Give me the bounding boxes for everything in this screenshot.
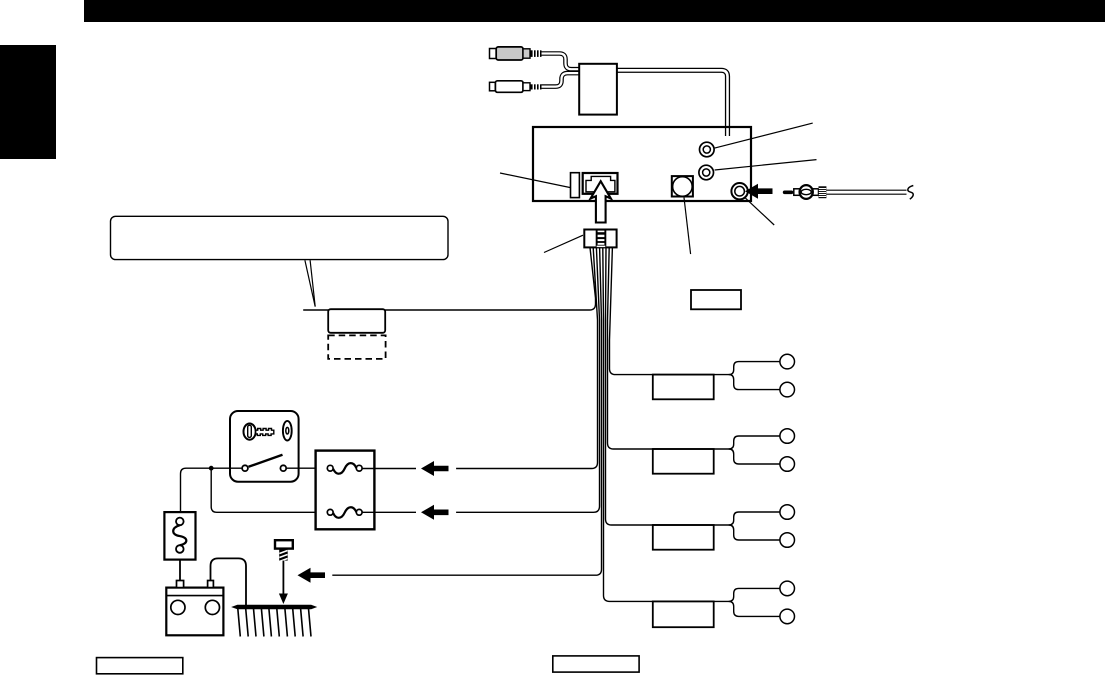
callout line to RCA jack 1: [715, 123, 813, 148]
black arrow fuse wire 2: [421, 505, 449, 520]
wire bundle: 8 wires from harness connector: [303, 248, 660, 602]
wire into key switch from junction: [211, 467, 242, 469]
antenna plug ribs: [819, 186, 827, 198]
wire key switch to fuse box: [286, 467, 327, 469]
ground bar: [233, 606, 315, 609]
battery negative wire to ground: [211, 558, 247, 606]
wire junction to fuse holder: [181, 468, 212, 512]
antenna cable break squiggle: [908, 186, 913, 200]
antenna plug barrel: [794, 189, 819, 196]
antenna plug arrow (black, pointing left): [745, 184, 773, 199]
RCA jack 2 on unit: [699, 165, 714, 180]
harness connector below unit: [584, 230, 616, 248]
ground screw head: [275, 540, 293, 548]
antenna cable: [826, 190, 906, 195]
label box near DIN callout: [691, 290, 741, 309]
callout line to harness connector: [544, 235, 583, 252]
antenna jack on unit: [731, 183, 747, 199]
head unit (rear view): [533, 127, 751, 201]
white RCA plug tip: [490, 82, 496, 91]
speaker group 1: [653, 354, 795, 399]
callout speech bubble: [111, 216, 449, 259]
speaker group 3: [653, 505, 795, 550]
speaker group 2: [653, 429, 795, 474]
battery: [166, 581, 223, 636]
black arrow fuse wire 1: [421, 461, 449, 476]
wire 5: to speaker group 4: [603, 248, 660, 602]
gray RCA plug body: [496, 47, 523, 60]
white RCA plug ribs: [530, 84, 541, 89]
ground hatching: [238, 609, 311, 637]
ignition key switch box: [230, 411, 299, 482]
shielded output cable from adapter box into head unit top: [615, 70, 728, 136]
callout line to RCA jack 2: [715, 160, 817, 170]
screw-to-ground arrow: [282, 561, 284, 595]
gray RCA plug tip: [490, 49, 497, 59]
wire 3: to fuse wire 2 (left, y=512.3): [456, 248, 599, 513]
bottom-left label box: [97, 658, 183, 674]
gray RCA plug neck: [523, 49, 530, 58]
bottom-middle label box: [553, 656, 639, 672]
wire fuse holder to battery positive: [179, 560, 181, 581]
antenna plug tip: [783, 191, 794, 195]
wire 1: to accessory lead (left, y=310): [303, 248, 595, 311]
gray RCA plug ribs: [530, 50, 541, 57]
wire 6: to speaker group 3: [606, 248, 661, 526]
junction dot: [209, 466, 214, 471]
RCA jack 1 on unit: [700, 142, 715, 157]
white RCA plug body: [495, 81, 523, 93]
fuse holder: [164, 512, 195, 560]
speaker group 4: [653, 581, 795, 627]
wire from white RCA plug to adapter box: [542, 73, 582, 87]
DIN socket: [672, 176, 693, 196]
wire from gray RCA plug to adapter box: [542, 54, 582, 70]
callout line to antenna jack: [745, 198, 774, 225]
top header black bar: [84, 0, 1105, 22]
callout line to DIN socket: [684, 198, 691, 255]
small vertical port left of main socket: [571, 173, 580, 198]
wire 2: to fuse wire 1 (left, y=468.5): [456, 248, 597, 469]
wire junction down to fuse2 lead: [211, 468, 327, 512]
label box on accessory lead: [328, 309, 385, 333]
left edge black tab: [0, 45, 56, 159]
white RCA plug neck: [523, 83, 530, 91]
ground screw threaded shaft: [279, 549, 288, 561]
RCA adapter box: [579, 64, 617, 115]
dashed box below accessory lead label: [328, 335, 385, 359]
wire 8: to speaker group 1: [610, 248, 661, 375]
antenna plug body rings: [800, 185, 813, 199]
fuse box output wires to arrows: [362, 468, 416, 470]
main harness socket on unit: [583, 173, 618, 194]
wire 4: to ground lead (left, y=575.2): [332, 248, 601, 576]
wire 7: to speaker group 2: [608, 248, 661, 450]
fuse box: [316, 451, 375, 530]
big white arrow into socket: [591, 181, 611, 222]
callout line to small port: [500, 173, 571, 188]
black arrow ground lead: [298, 568, 326, 583]
